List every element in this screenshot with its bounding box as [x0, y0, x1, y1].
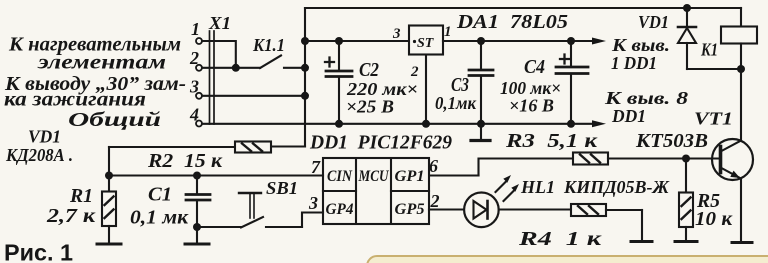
svg-text:GP4: GP4	[326, 201, 354, 218]
svg-text:R4 1 к: R4 1 к	[518, 228, 603, 250]
node C3 top	[477, 37, 485, 45]
node VD1/K1/VT1	[737, 65, 745, 73]
node C4 top	[567, 37, 575, 45]
node R1 top	[105, 172, 113, 180]
wire common rail (X1 pin4 to right)	[202, 123, 571, 125]
svg-text:ST: ST	[417, 36, 435, 51]
regulator DA1 78L05 box	[409, 26, 443, 55]
wire X1 pin2 to switch	[202, 67, 260, 69]
svg-text:КД208А .: КД208А .	[5, 145, 73, 165]
resistor R3	[427, 153, 686, 176]
resistor R2	[109, 142, 271, 176]
node C1 top	[193, 172, 201, 180]
svg-text:элементам: элементам	[37, 52, 167, 74]
svg-text:6: 6	[429, 156, 438, 176]
wire +12V top bus	[305, 7, 741, 9]
ground C1	[185, 243, 209, 246]
svg-text:1: 1	[191, 19, 200, 39]
svg-text:HL1 КИПД05В-Ж: HL1 КИПД05В-Ж	[520, 177, 669, 197]
svg-text:X1: X1	[208, 13, 231, 33]
resistor R5	[679, 159, 693, 242]
switch K1.1 blade	[260, 56, 281, 69]
resistor R4	[571, 204, 642, 241]
svg-text:MCU: MCU	[358, 168, 390, 185]
svg-text:VT1: VT1	[694, 109, 733, 129]
svg-text:CIN: CIN	[327, 168, 353, 185]
pushbutton SB1	[197, 193, 323, 228]
wire +12V vertical bus	[304, 8, 306, 147]
wire DD1 pin7	[109, 174, 323, 176]
node bus/pin3	[301, 92, 309, 100]
svg-text:C4: C4	[524, 56, 545, 78]
svg-text:3: 3	[189, 77, 199, 97]
arrow to pin 1 DD1	[592, 38, 606, 45]
svg-text:ка зажигания: ка зажигания	[4, 89, 146, 111]
svg-text:GP1: GP1	[395, 168, 425, 185]
svg-text:К выв. 8: К выв. 8	[604, 88, 688, 108]
svg-text:K1: K1	[700, 40, 718, 60]
capacitor C3	[469, 41, 493, 124]
svg-text:DD1: DD1	[611, 106, 646, 126]
wire DA1 output +5V	[443, 40, 592, 42]
ground VT1 emitter	[732, 241, 752, 244]
node bus/DA1-input	[301, 37, 309, 45]
resistor R1	[102, 176, 116, 244]
ground R5	[675, 240, 697, 243]
svg-text:КТ503В: КТ503В	[635, 130, 708, 152]
svg-text:К выв.: К выв.	[611, 35, 670, 55]
ground rail symbol	[480, 124, 482, 139]
node C1 bottom	[193, 223, 201, 231]
svg-text:2: 2	[430, 191, 440, 211]
wire DA1 pin2 down	[425, 55, 427, 124]
svg-text:7: 7	[311, 157, 321, 177]
svg-text:×25 В: ×25 В	[346, 97, 394, 117]
wire X1 pin3 to bus	[202, 95, 305, 97]
svg-text:DA1 78L05: DA1 78L05	[456, 11, 568, 33]
diode VD1 (flyback)	[678, 8, 741, 69]
svg-text:GP5: GP5	[395, 201, 425, 218]
capacitor C1	[186, 176, 210, 244]
svg-text:1 DD1: 1 DD1	[611, 53, 657, 73]
svg-text:VD1: VD1	[638, 12, 669, 32]
node DA1 pin2 on rail	[422, 120, 430, 128]
svg-text:Рис. 1: Рис. 1	[4, 240, 73, 263]
svg-text:SB1: SB1	[266, 178, 298, 198]
svg-text:C1: C1	[148, 184, 172, 206]
ground R4	[631, 240, 652, 243]
svg-text:C2: C2	[359, 59, 379, 81]
LED HL1	[429, 175, 571, 227]
node C3 bottom	[477, 120, 485, 128]
wire K1.1 to bus	[284, 67, 305, 69]
node VD1 top	[683, 4, 691, 12]
svg-text:2,7 к: 2,7 к	[46, 205, 96, 227]
svg-text:K1.1: K1.1	[252, 35, 285, 55]
arrow to pin 8 DD1	[571, 123, 592, 125]
svg-text:3: 3	[308, 193, 318, 213]
node C4 bottom	[567, 120, 575, 128]
IC DD1 PIC12F629	[323, 158, 429, 224]
svg-text:0,1 мк: 0,1 мк	[130, 207, 189, 229]
svg-text:10 к: 10 к	[695, 208, 733, 230]
ground R1	[97, 243, 121, 246]
svg-text:R1: R1	[69, 185, 93, 207]
svg-text:R3 5,1 к: R3 5,1 к	[505, 130, 598, 152]
capacitor C2	[325, 41, 352, 124]
wire VT1 base	[686, 157, 720, 159]
transistor VT1	[712, 69, 753, 242]
node bus/K1.1	[301, 64, 309, 72]
node C2 top	[335, 37, 343, 45]
node C2 bottom	[335, 120, 343, 128]
svg-text:0,1мк: 0,1мк	[435, 93, 477, 113]
connector X1	[196, 31, 214, 127]
svg-text:3: 3	[392, 26, 401, 42]
highlight bar bottom right	[367, 256, 768, 263]
capacitor C4	[556, 41, 588, 124]
relay K1 coil	[721, 8, 757, 70]
svg-text:VD1: VD1	[28, 127, 61, 147]
svg-text:Общий: Общий	[68, 109, 161, 131]
svg-text:R2 15 к: R2 15 к	[147, 150, 223, 172]
wire DA1 input	[305, 40, 409, 42]
wire X1 pin1 to pin2 node	[202, 41, 236, 68]
svg-text:DD1 PIC12F629: DD1 PIC12F629	[309, 132, 452, 154]
wire R2 right lead	[271, 145, 305, 147]
node base/R5	[682, 155, 690, 163]
svg-text:4: 4	[189, 105, 199, 125]
svg-text:2: 2	[189, 48, 199, 68]
svg-text:2: 2	[410, 64, 419, 80]
svg-text:1: 1	[444, 24, 452, 40]
node pin1/pin2 junction	[232, 64, 240, 72]
svg-text:×16 В: ×16 В	[509, 96, 554, 116]
